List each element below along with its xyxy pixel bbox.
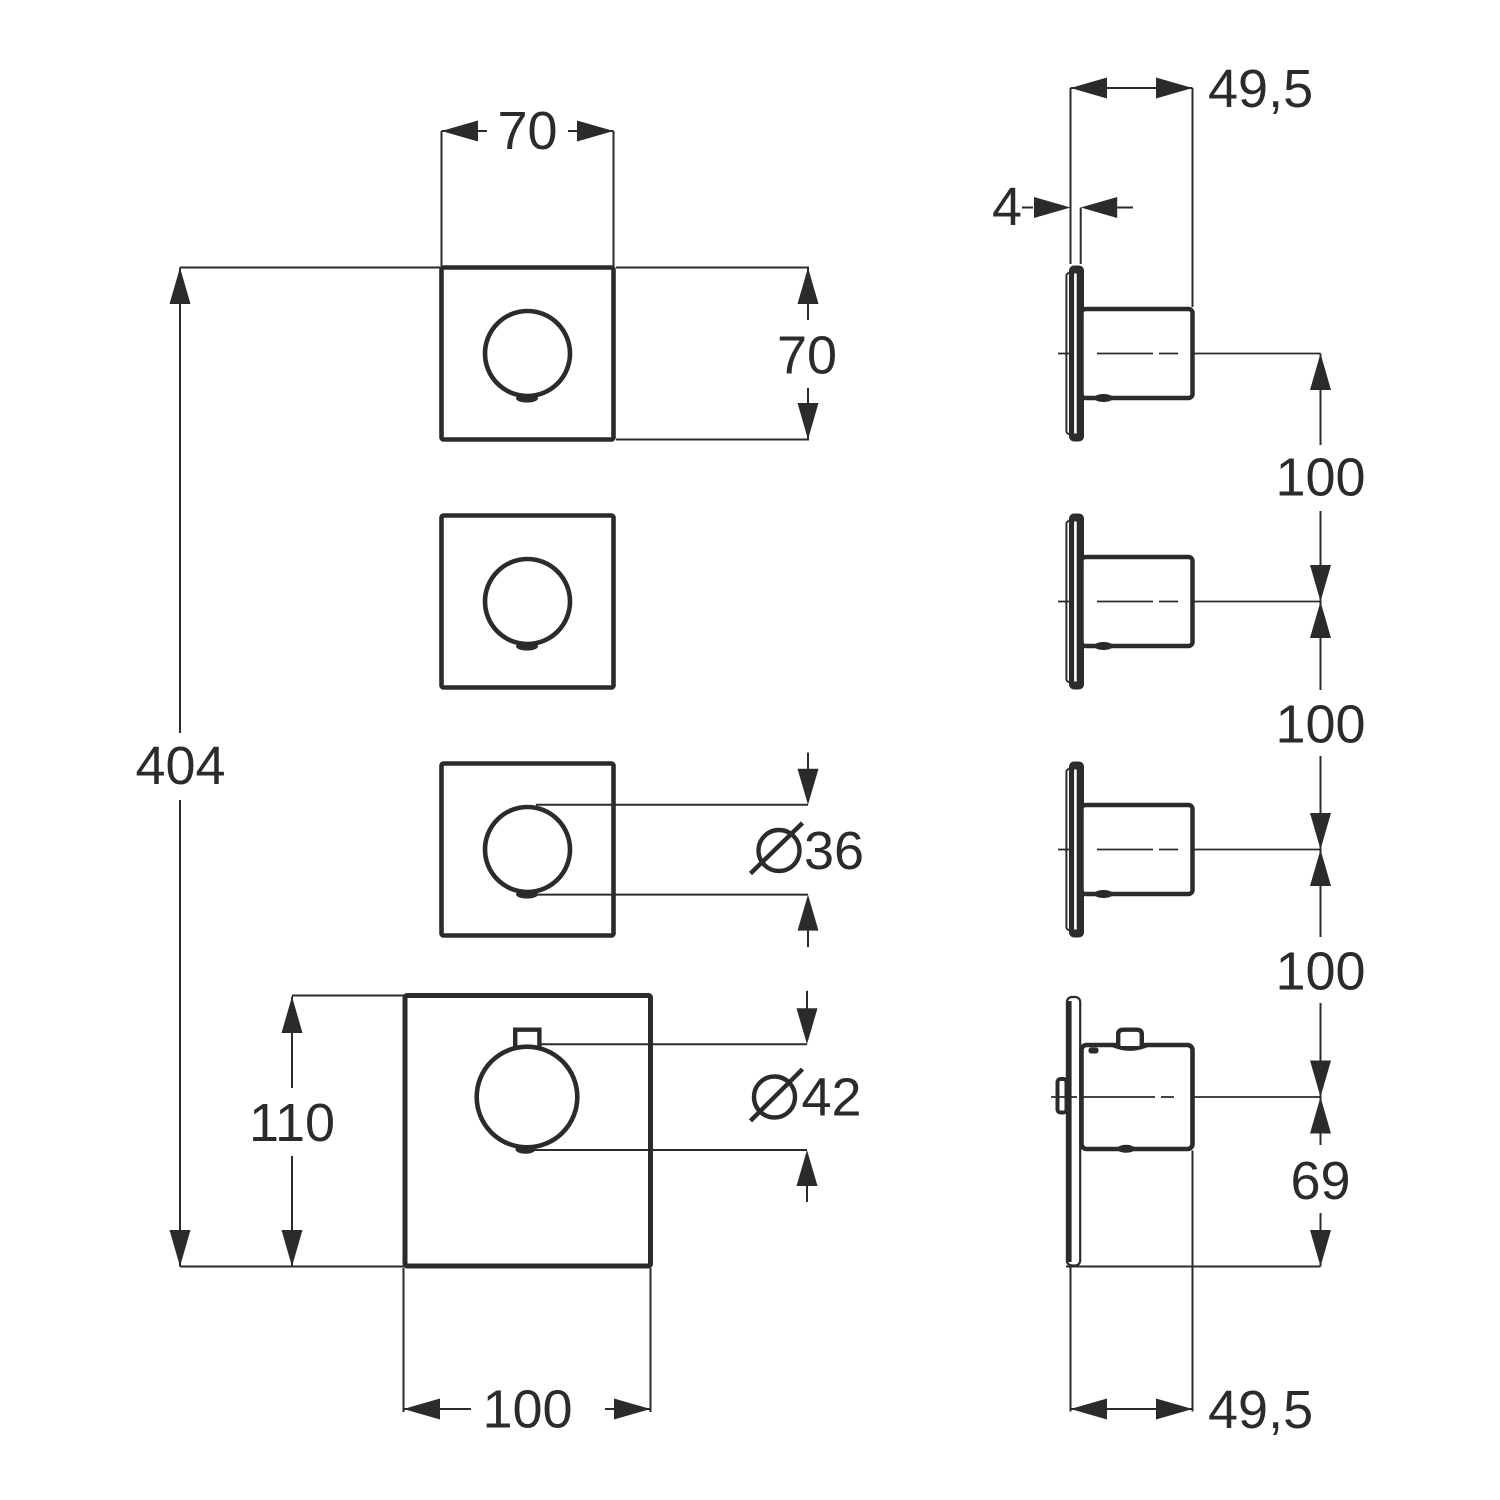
svg-text:42: 42	[802, 1068, 862, 1128]
dimension 110 arrows	[282, 997, 303, 1034]
dimension 100 (bottom width) line	[404, 1408, 651, 1410]
dimension 100 (knob3-knob4) arrows	[1310, 850, 1331, 887]
svg-text:70: 70	[777, 326, 837, 386]
bottom reference line (plate bottom to chain)	[1066, 1266, 1321, 1268]
diameter 42 leader lines	[542, 1043, 808, 1045]
dimension 100 (bottom width) arrows	[404, 1399, 441, 1420]
diameter 42 arrows	[806, 991, 808, 1010]
svg-text:49,5: 49,5	[1208, 59, 1313, 119]
side knob 2: shadow edge of escutcheon	[1066, 521, 1076, 682]
svg-text:69: 69	[1290, 1151, 1350, 1211]
dimension 69 (knob4 to bottom) arrows	[1310, 1097, 1331, 1134]
dimension 100 (bottom width) label	[471, 1381, 605, 1437]
dimension 70 (right height) arrows	[798, 268, 819, 305]
dimension 49,5 (bottom depth) line	[1071, 1408, 1193, 1410]
side knob 3: escutcheon plate profile	[1069, 762, 1084, 938]
plate square 3 (front)	[442, 764, 614, 936]
svg-text:404: 404	[135, 736, 225, 796]
diameter 36 arrows	[807, 753, 809, 771]
knob circle 3	[485, 807, 570, 892]
dimension 100 (bottom width) extension lines	[403, 1268, 405, 1412]
side knob 4 (thermostat): escutcheon plate profile	[1067, 997, 1080, 1266]
dimension 404 (overall height) extension lines	[180, 267, 442, 269]
dimension 70 (right height) extension lines	[616, 267, 809, 269]
thermostat knob circle 4	[477, 1047, 578, 1148]
svg-text:110: 110	[249, 1093, 335, 1153]
side knob 3: centerline	[1058, 849, 1192, 851]
knob circle 2	[485, 559, 570, 644]
dimension 110 label	[246, 1088, 338, 1156]
side knob 1: centerline	[1058, 353, 1192, 355]
svg-text:4: 4	[992, 177, 1022, 237]
side knob 4: grip bump	[1117, 1145, 1135, 1153]
svg-text:100: 100	[1275, 942, 1365, 1002]
dimension 70 (right height) line	[807, 268, 809, 440]
dimension 100 (knob2-knob3) arrows	[1310, 602, 1331, 639]
dimension 100 (knob1-knob2) arrows	[1310, 354, 1331, 391]
dimension 404 arrows	[170, 268, 191, 305]
safety button notch on thermostat knob (front)	[515, 1030, 539, 1048]
diameter 36 leader lines	[536, 804, 808, 806]
svg-text:100: 100	[482, 1380, 572, 1440]
dimension 49,5 (top depth) line	[1071, 87, 1193, 89]
side knob 4: safety button base curve	[1112, 1045, 1148, 1049]
side knob 4: thick front face of plate	[1067, 1001, 1072, 1262]
svg-text:36: 36	[804, 821, 864, 881]
knob circle 1	[485, 311, 570, 396]
svg-text:100: 100	[1275, 448, 1365, 508]
side knob 4: knob body	[1082, 1045, 1193, 1149]
grip bump on knob 1	[516, 394, 538, 403]
diameter 36 label	[759, 830, 800, 871]
side knob 2: centerline	[1058, 601, 1192, 603]
dimension 70 (top width) extension lines	[441, 131, 443, 266]
side knob 1: grip bump	[1094, 394, 1113, 402]
side knob 2: grip bump	[1094, 642, 1113, 650]
side knob 1: shadow edge of escutcheon	[1066, 273, 1076, 434]
grip bump on knob 3	[516, 890, 538, 899]
plate square 4 (thermostat escutcheon, front)	[405, 996, 651, 1267]
side knob 1: knob body	[1082, 309, 1193, 398]
dimension 110 (bottom plate height) extension line	[292, 995, 405, 997]
side knob 3: knob body	[1082, 805, 1193, 894]
dimension 4 extension line (plate back face)	[1080, 208, 1082, 265]
dimension chain labels background	[1274, 445, 1367, 511]
dimension 70 (right height) label	[769, 320, 846, 388]
dimension 4 arrows	[1022, 207, 1033, 209]
side knob 3: shadow edge of escutcheon	[1066, 769, 1076, 930]
dimension 49,5 (top depth) extension lines	[1070, 88, 1072, 264]
dimension 404 line	[179, 268, 181, 1267]
side knob 4: safety button on top	[1118, 1030, 1142, 1046]
side knob 4: small screw dot	[1089, 1048, 1099, 1054]
dimension 70 (top width) arrows	[442, 121, 479, 142]
dimension 404 label	[131, 733, 230, 800]
plate square 2 (front)	[442, 516, 614, 688]
side knob 4: centerline	[1051, 1096, 1192, 1098]
dimension chain 100/100/100/69 line	[1320, 354, 1322, 1267]
side knob 1: escutcheon plate profile	[1069, 266, 1084, 442]
svg-text:70: 70	[497, 101, 557, 161]
dimension 110 line	[291, 997, 293, 1267]
svg-text:100: 100	[1275, 695, 1365, 755]
side knob 2: escutcheon plate profile	[1069, 514, 1084, 690]
dimension 49,5 (bottom depth) extension lines	[1070, 1268, 1072, 1412]
dimension 49,5 (bottom depth) arrows	[1071, 1399, 1108, 1420]
dimension 70 (top width) label	[487, 103, 568, 157]
dimension 49,5 (top depth) arrows	[1071, 78, 1108, 99]
grip bump on knob 2	[516, 642, 538, 651]
grip bump on knob 4	[516, 1145, 536, 1154]
side knob 4: left tab on plate	[1058, 1079, 1067, 1113]
side knob 3: grip bump	[1094, 890, 1113, 898]
plate square 1 (top volume control escutcheon, front)	[442, 268, 614, 440]
svg-text:49,5: 49,5	[1208, 1380, 1313, 1440]
diameter 42 label	[754, 1077, 795, 1118]
side knob 2: knob body	[1082, 557, 1193, 646]
dimension 70 (top width) line	[442, 130, 614, 132]
